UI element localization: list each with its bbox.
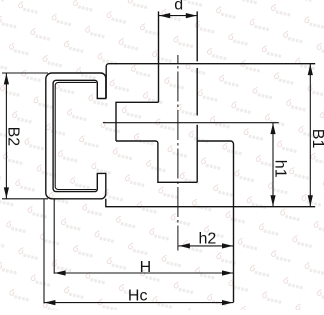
C-rail profile outline	[46, 73, 106, 199]
dimension H	[53, 199, 55, 274]
vertical centerline (dash-dot)	[177, 55, 179, 251]
dimension B1	[309, 64, 311, 207]
lower-right arm top edge + right edge (extends down as dim extension)	[197, 141, 233, 302]
C-rail inner liner line	[55, 82, 96, 189]
h1 top extension line	[103, 122, 279, 124]
svg-text:h1: h1	[271, 160, 288, 178]
dimension B2	[2, 72, 48, 74]
trolley right edge upper segment	[196, 68, 198, 116]
dimension h1	[272, 123, 274, 207]
trolley left notch step	[116, 102, 159, 141]
trolley top edge + top-left corner + left edge (merges with lip)	[106, 64, 315, 98]
svg-text:h2: h2	[199, 230, 217, 247]
svg-text:H: H	[140, 259, 152, 276]
lower-left arm top edge + bottom stem left/bottom	[116, 141, 197, 182]
dimension Hc	[43, 199, 45, 303]
svg-text:B2: B2	[4, 127, 21, 147]
bottom plate left corner + bottom edge	[106, 199, 315, 207]
dimension h2	[179, 245, 234, 247]
svg-text:Hc: Hc	[128, 288, 148, 305]
trolley right edge lower segment / bottom stem right	[196, 125, 198, 183]
d left extension + top stem left edge	[158, 11, 160, 102]
svg-text:d: d	[174, 0, 183, 13]
svg-text:B1: B1	[309, 129, 324, 149]
d right extension	[196, 11, 198, 61]
dimension d	[159, 15, 197, 17]
